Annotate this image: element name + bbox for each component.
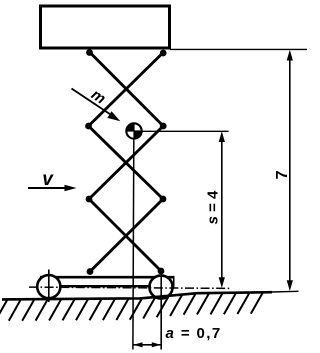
extension line from centre of mass (s-dim datum) [141,130,229,132]
scissor arm 6 [90,199,163,272]
s dimension line [219,131,225,288]
pivot joint top left [86,49,93,56]
base bar left cap [40,276,42,287]
svg-text:a = 0,7: a = 0,7 [166,325,222,342]
extension line top (7-dim datum at platform bottom) [170,48,307,50]
m arrow [72,89,121,122]
ground line [2,292,272,299]
centre-of-mass vertical reference line [132,139,135,350]
scissor arm 1 [90,52,164,126]
a dimension line with arrows [133,342,161,347]
svg-text:v: v [42,169,54,190]
pivot joint upper-middle right [160,123,167,130]
scissor arm 2 [89,53,164,127]
pivot joint top right [160,50,167,57]
base bar bottom line [40,285,175,287]
centre of mass symbol [126,123,141,138]
platform (top rectangle) [41,6,170,48]
pivot joint lower-middle right [160,196,167,203]
pivot joint lower-middle left [86,196,93,203]
7 dimension line [287,50,293,291]
ground hatching [0,292,263,321]
base bar top line [40,276,175,279]
wheel left [37,275,60,298]
wheel right vertical centre line, extended down as a-dim extension [160,269,162,350]
axle dash-dot centre line [29,287,231,288]
ground thin continuation (7-dim bottom datum) [271,290,299,293]
scissor arm 4 [89,126,163,199]
scissor arm 3 [89,126,164,199]
svg-text:7: 7 [274,170,291,179]
wheel interiors mask bar lines [39,276,60,297]
pivot joint bottom right [158,268,165,275]
wheel right [149,275,172,298]
scissor arm 5 [89,199,161,271]
base bar right cap [173,276,175,287]
svg-text:s = 4: s = 4 [205,190,222,224]
pivot joint bottom left [87,268,94,275]
pivot joint upper-middle left [85,123,92,130]
v arrow [28,185,77,192]
wheel left vertical centre line [48,270,50,303]
